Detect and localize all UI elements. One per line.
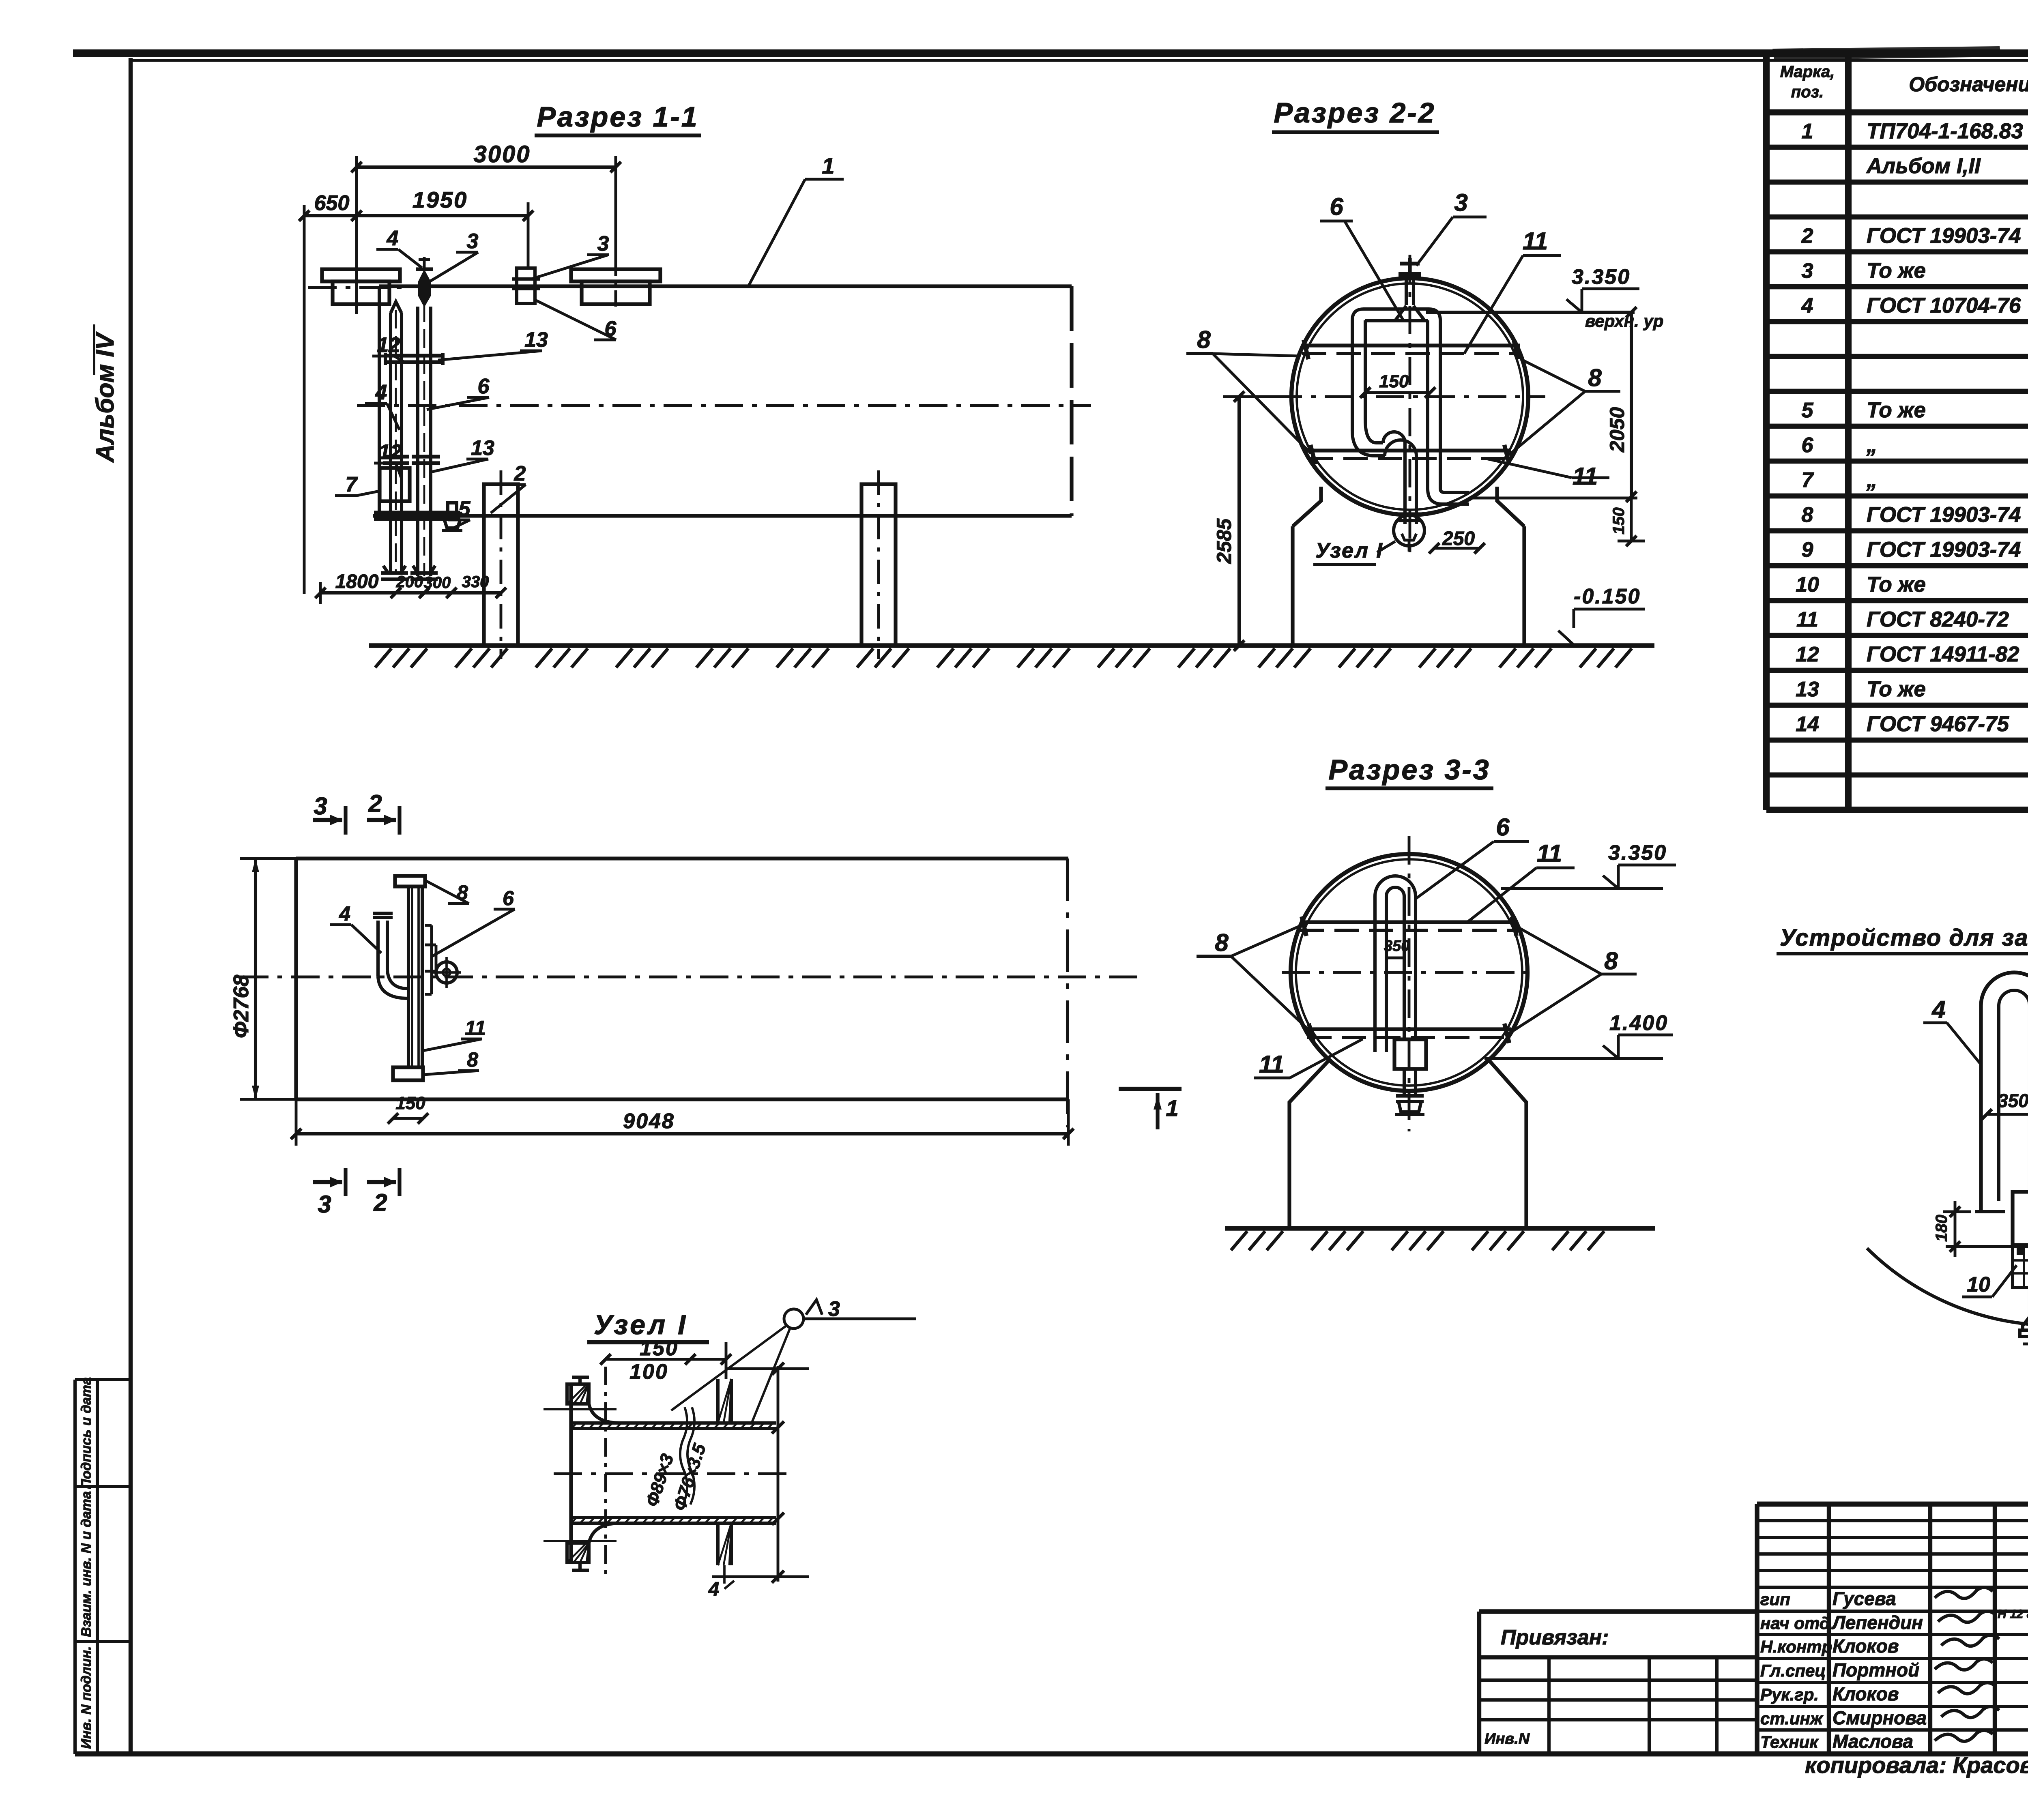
svg-text:2050: 2050 bbox=[1606, 407, 1628, 453]
svg-text:13: 13 bbox=[471, 436, 494, 460]
svg-text:330: 330 bbox=[462, 573, 489, 591]
svg-text:Подпись и дата: Подпись и дата bbox=[79, 1377, 94, 1489]
svg-text:5: 5 bbox=[459, 497, 471, 521]
svg-text:Лепендин: Лепендин bbox=[1831, 1612, 1923, 1633]
svg-text:Разрез 1-1: Разрез 1-1 bbox=[537, 101, 698, 133]
svg-text:поз.: поз. bbox=[1791, 83, 1824, 101]
svg-text:650: 650 bbox=[314, 191, 350, 215]
svg-text:-0.150: -0.150 bbox=[1574, 585, 1641, 608]
svg-text:ГОСТ 14911-82: ГОСТ 14911-82 bbox=[1867, 642, 2019, 666]
svg-text:3: 3 bbox=[1454, 189, 1467, 216]
svg-text:150: 150 bbox=[640, 1337, 679, 1360]
svg-text:Устройство для задержания герм: Устройство для задержания герметика bbox=[1780, 925, 2028, 951]
svg-text:4: 4 bbox=[375, 381, 387, 404]
svg-text:10: 10 bbox=[1796, 573, 1819, 597]
svg-text:Привязан:: Привязан: bbox=[1501, 1626, 1609, 1649]
svg-text:150: 150 bbox=[1610, 507, 1628, 534]
svg-text:180: 180 bbox=[1933, 1215, 1951, 1242]
svg-text:150: 150 bbox=[1379, 371, 1409, 391]
svg-text:150: 150 bbox=[395, 1093, 425, 1113]
svg-text:Портной: Портной bbox=[1833, 1659, 1919, 1680]
svg-text:Разрез 3-3: Разрез 3-3 bbox=[1328, 754, 1490, 786]
svg-text:Разрез 2-2: Разрез 2-2 bbox=[1274, 97, 1435, 129]
svg-text:Рук.гр.: Рук.гр. bbox=[1760, 1685, 1819, 1704]
svg-text:3.350: 3.350 bbox=[1572, 265, 1631, 289]
svg-text:9048: 9048 bbox=[623, 1110, 675, 1133]
svg-text:Гл.спец: Гл.спец bbox=[1760, 1661, 1826, 1680]
svg-text:3: 3 bbox=[597, 232, 609, 255]
svg-text:Н 12 85: Н 12 85 bbox=[1998, 1608, 2028, 1621]
svg-text:4: 4 bbox=[387, 227, 399, 250]
svg-text:Узел I: Узел I bbox=[594, 1309, 688, 1340]
svg-text:Альбом IV: Альбом IV bbox=[91, 331, 119, 463]
svg-text:ст.инж: ст.инж bbox=[1760, 1709, 1824, 1728]
svg-text:Инв. N подлин.: Инв. N подлин. bbox=[79, 1646, 94, 1749]
svg-text:Инв.N: Инв.N bbox=[1484, 1730, 1530, 1747]
svg-text:14: 14 bbox=[1796, 713, 1819, 736]
svg-text:6: 6 bbox=[1496, 813, 1510, 841]
svg-text:„: „ bbox=[1866, 468, 1878, 492]
svg-text:3: 3 bbox=[467, 230, 479, 253]
svg-text:нач отд: нач отд bbox=[1760, 1614, 1830, 1633]
svg-text:Узел I: Узел I bbox=[1315, 539, 1384, 562]
svg-text:ГОСТ 19903-74: ГОСТ 19903-74 bbox=[1867, 538, 2021, 562]
svg-text:„: „ bbox=[1866, 433, 1878, 457]
svg-text:13: 13 bbox=[1796, 678, 1819, 701]
svg-text:6: 6 bbox=[478, 375, 490, 398]
svg-text:копировала: Красовская: копировала: Красовская bbox=[1805, 1752, 2028, 1778]
svg-text:Взаим. инв. N и дата: Взаим. инв. N и дата bbox=[79, 1491, 94, 1637]
svg-text:Гусева: Гусева bbox=[1833, 1588, 1896, 1609]
svg-text:ТП704-1-168.83: ТП704-1-168.83 bbox=[1867, 119, 2023, 143]
svg-text:То же: То же bbox=[1867, 398, 1926, 422]
svg-text:2: 2 bbox=[368, 790, 382, 817]
svg-text:7: 7 bbox=[1802, 468, 1814, 492]
svg-text:2: 2 bbox=[514, 462, 526, 485]
svg-text:9: 9 bbox=[1802, 538, 1813, 562]
svg-text:Смирнова: Смирнова bbox=[1833, 1707, 1927, 1728]
svg-text:1950: 1950 bbox=[412, 187, 468, 212]
svg-text:8: 8 bbox=[1197, 326, 1211, 353]
svg-text:3.350: 3.350 bbox=[1608, 841, 1667, 865]
svg-text:250: 250 bbox=[1442, 528, 1475, 549]
svg-text:ГОСТ 10704-76: ГОСТ 10704-76 bbox=[1867, 294, 2021, 318]
svg-text:8: 8 bbox=[1215, 929, 1229, 956]
svg-text:6: 6 bbox=[1802, 434, 1814, 457]
svg-text:ГОСТ 9467-75: ГОСТ 9467-75 bbox=[1867, 712, 2009, 736]
svg-text:1800: 1800 bbox=[335, 571, 379, 592]
svg-text:Клоков: Клоков bbox=[1833, 1635, 1899, 1657]
svg-text:Маслова: Маслова bbox=[1833, 1731, 1913, 1752]
svg-text:12: 12 bbox=[378, 440, 402, 464]
svg-text:350: 350 bbox=[1998, 1090, 2028, 1111]
svg-text:гип: гип bbox=[1760, 1590, 1790, 1609]
svg-text:8: 8 bbox=[1604, 947, 1618, 974]
svg-text:ГОСТ 8240-72: ГОСТ 8240-72 bbox=[1867, 607, 2009, 631]
svg-text:ГОСТ 19903-74: ГОСТ 19903-74 bbox=[1867, 503, 2021, 527]
svg-text:10: 10 bbox=[1967, 1273, 1990, 1296]
svg-text:Марка,: Марка, bbox=[1780, 63, 1835, 81]
svg-text:2: 2 bbox=[373, 1189, 387, 1216]
svg-text:6: 6 bbox=[1330, 193, 1343, 220]
svg-text:11: 11 bbox=[1537, 840, 1562, 867]
svg-text:То же: То же bbox=[1867, 259, 1926, 283]
svg-text:200: 200 bbox=[396, 573, 423, 591]
svg-text:5: 5 bbox=[1802, 399, 1814, 422]
svg-text:4: 4 bbox=[1931, 996, 1945, 1023]
svg-text:Н.контр: Н.контр bbox=[1760, 1637, 1832, 1656]
svg-text:3: 3 bbox=[1802, 259, 1813, 283]
svg-text:11: 11 bbox=[465, 1017, 486, 1039]
svg-text:11: 11 bbox=[1523, 227, 1548, 255]
svg-text:1: 1 bbox=[1802, 120, 1813, 143]
svg-text:12: 12 bbox=[377, 333, 400, 357]
svg-text:300: 300 bbox=[424, 574, 451, 592]
svg-text:7: 7 bbox=[346, 473, 358, 496]
svg-text:8: 8 bbox=[1802, 503, 1813, 527]
svg-text:12: 12 bbox=[1796, 643, 1819, 666]
svg-text:ГОСТ 19903-74: ГОСТ 19903-74 bbox=[1867, 224, 2021, 248]
svg-text:4: 4 bbox=[1801, 294, 1813, 318]
svg-text:1.400: 1.400 bbox=[1609, 1011, 1668, 1035]
svg-text:13: 13 bbox=[524, 328, 548, 352]
svg-text:11: 11 bbox=[1573, 463, 1598, 490]
svg-text:8: 8 bbox=[1588, 364, 1602, 391]
svg-text:11: 11 bbox=[1796, 608, 1818, 631]
svg-text:11: 11 bbox=[1259, 1051, 1284, 1078]
svg-text:350: 350 bbox=[1384, 938, 1409, 955]
svg-text:верхн. ур: верхн. ур bbox=[1585, 311, 1663, 331]
svg-text:То же: То же bbox=[1867, 677, 1926, 701]
svg-text:100: 100 bbox=[629, 1360, 668, 1384]
svg-text:2: 2 bbox=[1801, 224, 1813, 248]
svg-text:8: 8 bbox=[467, 1048, 478, 1071]
svg-text:3000: 3000 bbox=[473, 141, 531, 167]
svg-text:1: 1 bbox=[822, 153, 834, 178]
svg-text:4: 4 bbox=[339, 902, 350, 925]
svg-text:6: 6 bbox=[503, 887, 514, 910]
svg-text:Техник: Техник bbox=[1760, 1732, 1819, 1751]
svg-text:То же: То же bbox=[1867, 573, 1926, 597]
svg-text:3: 3 bbox=[828, 1297, 840, 1321]
svg-text:2585: 2585 bbox=[1213, 518, 1235, 564]
svg-text:1: 1 bbox=[1166, 1095, 1178, 1121]
svg-text:Обозначение: Обозначение bbox=[1909, 73, 2028, 96]
svg-text:Альбом I,II: Альбом I,II bbox=[1866, 154, 1981, 178]
svg-text:3: 3 bbox=[314, 792, 327, 820]
svg-text:3: 3 bbox=[318, 1191, 331, 1218]
svg-text:4: 4 bbox=[708, 1579, 720, 1600]
svg-text:Ф2768: Ф2768 bbox=[230, 975, 253, 1038]
svg-text:Клоков: Клоков bbox=[1833, 1683, 1899, 1704]
